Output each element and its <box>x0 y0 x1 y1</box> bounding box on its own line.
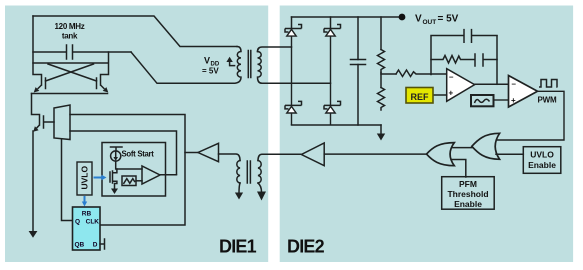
svg-text:–: – <box>449 73 454 82</box>
svg-text:tank: tank <box>62 32 78 41</box>
svg-text:PWM: PWM <box>538 96 557 105</box>
svg-text:–: – <box>512 80 517 89</box>
svg-text:= 5V: = 5V <box>202 67 219 76</box>
svg-text:120 MHz: 120 MHz <box>55 22 85 31</box>
svg-text:DIE2: DIE2 <box>287 237 325 257</box>
svg-text:DIE1: DIE1 <box>219 237 257 257</box>
svg-text:D: D <box>93 242 98 249</box>
svg-text:REF: REF <box>411 92 430 102</box>
svg-text:+: + <box>449 89 454 98</box>
svg-text:V: V <box>415 14 422 25</box>
svg-text:OUT: OUT <box>423 19 437 26</box>
svg-text:QB: QB <box>75 242 85 249</box>
svg-text:Soft Start: Soft Start <box>122 150 155 159</box>
svg-text:Q: Q <box>75 219 80 226</box>
svg-text:Enable: Enable <box>454 199 482 209</box>
svg-text:+: + <box>511 96 516 105</box>
svg-text:UVLO: UVLO <box>80 166 90 190</box>
svg-text:Enable: Enable <box>528 160 556 170</box>
svg-text:V: V <box>204 56 210 66</box>
svg-text:UVLO: UVLO <box>530 150 554 160</box>
svg-text:RB: RB <box>82 211 92 218</box>
svg-text:PFM: PFM <box>459 179 477 189</box>
svg-text:Threshold: Threshold <box>447 189 488 199</box>
svg-text:CLK: CLK <box>86 219 100 226</box>
svg-text:= 5V: = 5V <box>438 14 459 25</box>
